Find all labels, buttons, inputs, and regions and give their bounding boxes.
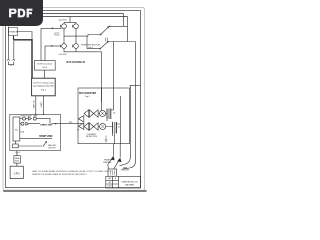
svg-text:START: START bbox=[40, 101, 43, 108]
svg-text:STARTER ON SIGNAL ENABLES INVE: STARTER ON SIGNAL ENABLES INVERTER IN FR… bbox=[32, 173, 87, 176]
transformer T1 bbox=[107, 109, 111, 120]
transistor Q2 (upper right) bbox=[75, 22, 77, 24]
wire osc2 output B bbox=[43, 96, 45, 115]
amplifier triangle A2 (left big) bbox=[78, 123, 83, 130]
page bottom shadow bbox=[4, 190, 146, 192]
AC plug arrow right bbox=[13, 59, 15, 61]
svg-text:CHARTER BLOCK: CHARTER BLOCK bbox=[121, 181, 138, 184]
junction dots on lamp box top bbox=[35, 114, 36, 115]
wire lamp box to data box bbox=[16, 151, 18, 156]
AC loop wire bbox=[8, 62, 13, 65]
junction dot bbox=[109, 26, 110, 27]
drive wire lower with arrow bbox=[45, 45, 61, 47]
wire bridge to switch S1 bbox=[76, 35, 100, 37]
lamp row2: output wire with arrow to bus inverter bbox=[29, 123, 78, 125]
svg-text:SENSOR: SENSOR bbox=[21, 115, 29, 117]
100 Hz oscillator box bbox=[32, 78, 56, 96]
lamp row1: wire bbox=[20, 118, 23, 120]
wire oscillator1 to oscillator2 bbox=[44, 70, 46, 78]
switch S4 time winding blade bbox=[114, 160, 119, 168]
svg-text:WINDING: WINDING bbox=[103, 162, 112, 164]
svg-text:WINDING: WINDING bbox=[121, 170, 130, 172]
page sheet bbox=[3, 8, 145, 191]
amplifier triangle A1 (left big) bbox=[78, 116, 83, 123]
interior wires row2 bbox=[78, 124, 120, 127]
winding circle W1 bbox=[99, 110, 105, 116]
svg-text:DIAGRAM: DIAGRAM bbox=[125, 184, 134, 187]
lamp aux small box bbox=[13, 144, 19, 148]
bus inverter box bbox=[78, 88, 130, 144]
svg-text:Fig: Fig bbox=[15, 130, 18, 132]
lamp row2: amp triangle bbox=[26, 122, 29, 125]
wire data box to cpu bbox=[16, 163, 18, 166]
wire node to bus inverter top bbox=[113, 42, 115, 89]
svg-text:IGNITOR: IGNITOR bbox=[48, 148, 56, 150]
transistor Q4 (lower right) bbox=[75, 29, 77, 44]
wire right drop hook to S4 bbox=[123, 161, 136, 169]
wire osc2 output A bbox=[35, 96, 37, 115]
node line upper right bbox=[109, 25, 128, 27]
drive wire upper with arrow bbox=[41, 27, 62, 29]
wire bridge midtap to switch S2 bbox=[87, 36, 100, 49]
title block bbox=[106, 176, 141, 188]
interior wires row1 bbox=[98, 102, 114, 121]
svg-text:POWER IN: POWER IN bbox=[8, 31, 18, 33]
lamp assembly outer box bbox=[10, 114, 61, 150]
svg-text:100 Hz Oscillator Duty: 100 Hz Oscillator Duty bbox=[33, 82, 54, 85]
ground symbol in bus inverter bbox=[105, 136, 108, 143]
wire rail1 drop right bbox=[123, 14, 125, 27]
bold bus wire L bbox=[14, 40, 33, 78]
return rail (second) bbox=[8, 16, 128, 18]
capacitor marks near S1 bbox=[105, 38, 107, 42]
50 Hz oscillator box bbox=[34, 61, 55, 71]
AC input wire right bbox=[13, 40, 15, 59]
CPU box bbox=[10, 166, 23, 178]
node line lower right bbox=[108, 41, 136, 43]
svg-text:Fig 1: Fig 1 bbox=[16, 152, 20, 154]
lamp row1: wire bbox=[26, 118, 29, 120]
svg-text:Plane: Plane bbox=[54, 35, 60, 37]
svg-text:Cycle Adjusted by VRD: Cycle Adjusted by VRD bbox=[33, 85, 55, 88]
data bus box bbox=[14, 156, 20, 163]
svg-text:START 2000: START 2000 bbox=[39, 135, 53, 138]
svg-text:(T): (T) bbox=[118, 126, 121, 128]
svg-text:(T): (T) bbox=[113, 112, 116, 114]
svg-text:START 2000: START 2000 bbox=[40, 124, 53, 127]
wire bus inverter bottom exit B bbox=[119, 144, 121, 158]
AC plug arrow left bbox=[7, 59, 9, 61]
wire power box to bus bbox=[18, 32, 33, 40]
stub rail2 to bridge bbox=[69, 17, 71, 23]
ignitor arrow symbol bbox=[43, 142, 47, 147]
lamp row1: amp triangle bbox=[29, 117, 32, 120]
lamp row1: sensor circle bbox=[23, 117, 26, 120]
bridge bottom tie wire bbox=[64, 48, 102, 51]
switch S3 phase winding blade bbox=[108, 158, 113, 164]
tiny text labels bbox=[8, 19, 138, 187]
transistor Q3 (lower left) bbox=[63, 29, 65, 44]
transformer T2 bbox=[113, 122, 117, 133]
wire aux box link bbox=[16, 141, 43, 146]
wire right drop hook to S3 bbox=[120, 156, 131, 166]
svg-text:BUS INVERTER: BUS INVERTER bbox=[79, 93, 96, 95]
svg-text:LAMP ON SIGNAL MEANS INVERTER: LAMP ON SIGNAL MEANS INVERTER IN DISABLE… bbox=[32, 170, 112, 173]
lamp row1: lamp circle bbox=[33, 117, 36, 120]
winding circle W2 bbox=[100, 123, 106, 129]
bridge mid tie wire bbox=[64, 35, 76, 37]
AC input wire left bbox=[7, 27, 9, 59]
wire vertical x135 bbox=[135, 42, 137, 162]
svg-text:Fig 5: Fig 5 bbox=[85, 96, 91, 98]
PDF badge letters bbox=[9, 9, 32, 18]
lamp row2: circle bbox=[21, 122, 24, 125]
inverter bridge top tie wire bbox=[64, 21, 76, 23]
switch S2 lower (blade with arrow) bbox=[100, 48, 101, 49]
wires switches to connector bbox=[108, 164, 114, 169]
svg-text:+200 VDC: +200 VDC bbox=[58, 19, 68, 21]
AC loop junction dot bbox=[10, 64, 11, 65]
svg-text:50 Hz Oscillator: 50 Hz Oscillator bbox=[37, 63, 52, 66]
lamp inner tall box bbox=[13, 117, 20, 141]
interior right vertical wire bbox=[119, 96, 121, 144]
wire vertical x130.5 bbox=[130, 86, 132, 157]
wire power box bottom stub bbox=[13, 36, 15, 40]
junction dot box left edge bbox=[77, 129, 78, 130]
+200 VDC rail (top) bbox=[8, 13, 124, 15]
lamp inner divider line bbox=[20, 138, 52, 140]
diode pair row2 (bowtie) bbox=[84, 123, 89, 130]
schematic border frame bbox=[6, 11, 141, 188]
svg-text:DETECTION: DETECTION bbox=[86, 136, 98, 138]
wire rail2 drop right long bbox=[127, 17, 129, 42]
wire right return to frame bbox=[130, 85, 141, 87]
diode pair row1 (bowtie) bbox=[84, 110, 89, 117]
svg-text:LAMP ON: LAMP ON bbox=[33, 100, 36, 109]
transformer bottom exit wires bbox=[113, 133, 115, 143]
drive wire lower riser to oscillator bbox=[44, 46, 46, 61]
lamp row2: wire bbox=[20, 123, 21, 125]
connector block bbox=[108, 169, 117, 176]
PDF badge overlay bbox=[0, 0, 43, 26]
drive wire upper riser to oscillator bbox=[40, 28, 42, 60]
wire bus inverter bottom exit A bbox=[112, 144, 114, 156]
POWER IN box bbox=[9, 28, 18, 36]
svg-text:SH: SH bbox=[109, 182, 111, 184]
wire bottom tie into bus inverter bbox=[101, 52, 103, 102]
svg-text:BUS CHARGE IN: BUS CHARGE IN bbox=[67, 61, 86, 64]
transistor Q1 (upper left) bbox=[63, 22, 65, 24]
lamp row1: output wire bbox=[36, 119, 50, 124]
switch S1 upper (blade with arrow) bbox=[100, 34, 101, 35]
wires into bus inverter top bbox=[102, 88, 114, 103]
svg-text:-200 VDC: -200 VDC bbox=[58, 54, 67, 56]
svg-text:CPU: CPU bbox=[14, 171, 20, 175]
